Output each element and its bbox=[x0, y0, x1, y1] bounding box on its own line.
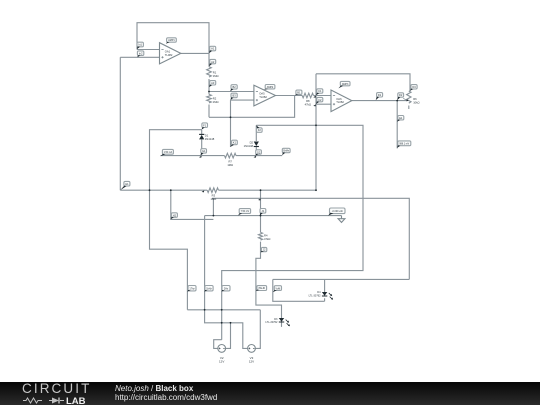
svg-text:R7: R7 bbox=[228, 159, 232, 163]
svg-text:TL082: TL082 bbox=[165, 53, 173, 57]
wire op-amp2 feedback bottom bbox=[209, 96, 295, 118]
svg-text:1N4148: 1N4148 bbox=[244, 144, 254, 148]
resistor R1 bbox=[207, 67, 212, 77]
svg-text:R4: R4 bbox=[264, 233, 268, 237]
svg-text:D2: D2 bbox=[250, 141, 254, 145]
CircuitLab logo text bbox=[22, 385, 91, 393]
wire D4 stems bbox=[324, 279, 326, 301]
svg-text:R3: R3 bbox=[212, 194, 216, 198]
wire main horizontal bus with R3 bbox=[120, 189, 316, 191]
flag row 4 PALID bbox=[256, 286, 267, 292]
led D4 bbox=[309, 291, 334, 300]
flag A1 at op-amp1 output bbox=[209, 46, 216, 53]
resistor R4 bbox=[259, 232, 263, 240]
flag node above R1 bbox=[209, 59, 216, 66]
svg-text:1MΩ: 1MΩ bbox=[213, 100, 219, 104]
flag node below R4 bbox=[260, 247, 266, 252]
wire node D stub below op-amp2 plus input bbox=[230, 100, 232, 147]
svg-text:R8: R8 bbox=[306, 99, 310, 103]
flag node at bus right end bbox=[282, 148, 290, 155]
wire jog rectangle bbox=[205, 216, 214, 220]
svg-text:A2: A2 bbox=[211, 60, 215, 64]
flag node at stub end below op-amp2 bbox=[230, 140, 237, 147]
wire led box left and bottom rail bbox=[273, 279, 325, 301]
flag voltmeter reading on probe stub bbox=[397, 141, 411, 148]
wire op-amp3 feedback top bbox=[316, 74, 410, 91]
CircuitLab logo symbol row bbox=[23, 396, 95, 405]
svg-text:OA1: OA1 bbox=[165, 50, 171, 54]
wire node bus y125 from D2 top to right box bbox=[222, 125, 363, 339]
svg-text:H1: H1 bbox=[125, 182, 129, 186]
svg-text:7.50 mV: 7.50 mV bbox=[241, 211, 250, 213]
wire R1 R2 divider chain bbox=[208, 53, 210, 117]
svg-text:G1: G1 bbox=[202, 149, 206, 153]
flag node on probe stub bbox=[397, 116, 404, 122]
flag node after R8 bbox=[316, 89, 323, 96]
svg-text:B2: B2 bbox=[233, 85, 237, 89]
wire diode bottom bus with R7 bbox=[161, 155, 283, 157]
wire R4 branch from main bus bbox=[260, 190, 262, 253]
flag row 2 bbox=[205, 286, 214, 292]
wire op-amp2 inverting input bbox=[209, 91, 254, 93]
voltage source V3 bbox=[248, 345, 256, 364]
wire pot R6 bottom stub bbox=[408, 106, 410, 110]
svg-text:1N4148: 1N4148 bbox=[205, 137, 215, 141]
wire op-amp1 feedback loop bbox=[137, 23, 209, 54]
svg-text:AMP1: AMP1 bbox=[168, 39, 175, 42]
svg-text:10kΩ: 10kΩ bbox=[413, 100, 419, 104]
wire from D1 top to left branch down to row flag 1 bbox=[150, 130, 202, 310]
svg-text:B3: B3 bbox=[233, 94, 237, 98]
svg-text:AMP2: AMP2 bbox=[267, 86, 274, 89]
svg-text:AMP3: AMP3 bbox=[342, 83, 349, 86]
wire op-amp1 inverting input bbox=[137, 49, 160, 51]
resistor R3 bbox=[207, 188, 218, 193]
wire op-amp1 non-inverting input bbox=[120, 56, 159, 58]
flag AMP2 above op-amp2 bbox=[263, 85, 275, 91]
svg-text:LTL-30762: LTL-30762 bbox=[309, 294, 322, 297]
op-amp OA5 bbox=[254, 85, 276, 106]
svg-text:A3: A3 bbox=[211, 81, 215, 85]
svg-text:1kHz: 1kHz bbox=[206, 287, 212, 290]
wire op-amp2 output to R8 bbox=[276, 95, 303, 97]
resistor R8 bbox=[302, 93, 313, 98]
svg-text:C2: C2 bbox=[318, 98, 322, 102]
flag AMP1 above op-amp1 bbox=[166, 38, 177, 44]
wire bottom horizontal y309.8 bbox=[187, 309, 260, 311]
flag node at op-amp3 output bbox=[376, 93, 383, 101]
resistor R2 bbox=[207, 94, 212, 102]
svg-text:TL082: TL082 bbox=[259, 95, 267, 99]
svg-text:LTL-30762: LTL-30762 bbox=[265, 321, 278, 324]
output probe hollow arrow bbox=[338, 216, 345, 223]
flag node at op-amp2 non-inverting input bbox=[230, 93, 237, 100]
svg-text:986.1 mV: 986.1 mV bbox=[399, 144, 409, 146]
flag volt reading at bus3 right end bbox=[328, 208, 345, 216]
flag node at D2 top bbox=[256, 125, 262, 132]
svg-text:R6: R6 bbox=[413, 97, 417, 101]
flag AMP3 above op-amp3 bbox=[338, 81, 350, 88]
wire op-amp3 non-inverting input bbox=[316, 103, 331, 105]
wire op-amp2 non-inverting input bbox=[231, 99, 254, 101]
wire branch x204.6 down to V3 plus bbox=[205, 219, 248, 348]
wire V2 plus hook bbox=[214, 340, 222, 349]
flag node at pot top bbox=[410, 85, 417, 91]
svg-text:TL082: TL082 bbox=[336, 100, 344, 104]
flag B1 at op-amp2 output bbox=[295, 90, 302, 95]
wire op-amp1 output bbox=[181, 52, 209, 54]
wire R8 to op-amp3 inverting input bbox=[314, 95, 332, 97]
diode D1 bbox=[199, 134, 215, 141]
svg-text:47kΩ: 47kΩ bbox=[305, 103, 311, 107]
svg-text:1MΩ: 1MΩ bbox=[213, 74, 219, 78]
resistor R7 bbox=[225, 153, 237, 158]
flag millivolt reading on bus3 bbox=[238, 209, 251, 216]
svg-text:1.50 mA: 1.50 mA bbox=[164, 151, 173, 154]
led D3 bbox=[265, 318, 290, 327]
wire D3 bottom stub bbox=[281, 322, 283, 327]
flag node P on branch x170.8 bbox=[171, 213, 178, 220]
svg-text:G2: G2 bbox=[257, 150, 261, 154]
svg-text:D2: D2 bbox=[399, 93, 403, 97]
wire D1 stems bbox=[201, 130, 203, 156]
wire V3 minus up bbox=[255, 310, 260, 349]
svg-text:B1: B1 bbox=[297, 91, 301, 95]
svg-text:R1: R1 bbox=[213, 71, 217, 75]
wire D2 stems bbox=[255, 125, 257, 155]
svg-text:A1: A1 bbox=[211, 47, 215, 51]
flag ammeter reading at bus left end bbox=[160, 149, 173, 156]
svg-text:17hz: 17hz bbox=[189, 287, 195, 290]
flag row 3 bbox=[222, 286, 230, 292]
svg-text:VoM: VoM bbox=[276, 287, 281, 290]
op-amp OA6 bbox=[331, 90, 352, 112]
flag node below D1 bbox=[200, 149, 206, 156]
wire vertical connecting bus2 to bus3 bbox=[212, 198, 214, 215]
svg-text:12V: 12V bbox=[219, 360, 224, 364]
wire V2 minus up bbox=[226, 323, 231, 349]
svg-text:1MΩ: 1MΩ bbox=[227, 163, 233, 167]
svg-text:PALID: PALID bbox=[259, 287, 266, 290]
flag node Q on bus3 bbox=[260, 209, 266, 216]
svg-text:47kΩ: 47kΩ bbox=[264, 237, 270, 241]
wire op-amp3 output to pot wiper bbox=[352, 100, 408, 102]
flag node below D2 bbox=[255, 150, 261, 156]
svg-text:-0.000 volt: -0.000 volt bbox=[332, 210, 343, 213]
svg-text:R2: R2 bbox=[213, 96, 217, 100]
junction marks bbox=[149, 91, 399, 324]
svg-text:In1: In1 bbox=[138, 43, 142, 47]
flag node at D1 top bbox=[202, 123, 208, 130]
wire branch x170.8 down bbox=[171, 190, 205, 219]
voltage source V2 bbox=[218, 345, 226, 364]
potentiometer R6 bbox=[403, 91, 419, 104]
footer title line bbox=[115, 385, 193, 393]
op-amp OA1 bbox=[160, 43, 181, 64]
svg-text:12V: 12V bbox=[249, 360, 254, 364]
svg-text:D1: D1 bbox=[378, 93, 382, 97]
wire left vertical from op-amp1 plus input to node O bbox=[119, 57, 121, 190]
flag node at op-amp3 non-inverting input bbox=[316, 97, 323, 104]
flag node below R1 bbox=[209, 81, 216, 88]
wire bus3 y215.6 bbox=[205, 215, 342, 217]
svg-text:K1: K1 bbox=[233, 141, 237, 145]
wire led box top rail bbox=[273, 278, 410, 280]
flag node In- at op-amp1 bbox=[137, 42, 144, 49]
flag node at probe junction bbox=[397, 93, 403, 101]
svg-text:E1: E1 bbox=[399, 116, 403, 120]
svg-text:OA6: OA6 bbox=[336, 97, 342, 101]
svg-text:D1: D1 bbox=[205, 134, 209, 138]
svg-text:1MΩ: 1MΩ bbox=[211, 197, 217, 201]
diode D2 bbox=[244, 141, 259, 148]
footer url line bbox=[115, 394, 217, 402]
flag node O at main bus left bbox=[120, 181, 130, 190]
svg-text:LAB: LAB bbox=[66, 396, 86, 405]
svg-text:OA5: OA5 bbox=[259, 92, 265, 96]
flag row 5 VoM bbox=[273, 286, 282, 293]
wire bus2 y198 to right vertical down to led box bbox=[212, 198, 409, 279]
svg-text:C1: C1 bbox=[318, 89, 322, 93]
flag node In+ at op-amp1 bbox=[137, 51, 143, 57]
wire probe stub below output node bbox=[396, 101, 398, 149]
svg-text:D3: D3 bbox=[412, 85, 416, 89]
svg-text:H2: H2 bbox=[173, 213, 177, 217]
svg-text:BrMe: BrMe bbox=[283, 150, 289, 153]
flag row 1 bbox=[187, 286, 196, 292]
svg-text:In2: In2 bbox=[139, 51, 143, 55]
wire jog below R4 to D3 bbox=[256, 253, 282, 318]
wire op-amp3 vertical through inputs down to main bus bbox=[315, 74, 317, 190]
flag node at op-amp2 inverting input bbox=[230, 85, 237, 92]
